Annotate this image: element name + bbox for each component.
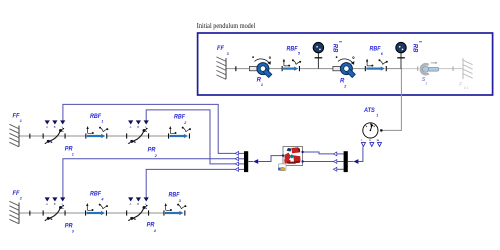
right demux output triangle 3 <box>333 167 336 171</box>
wire W2 demux out3 to PR2 input <box>146 110 235 164</box>
svg-text:FF: FF <box>217 46 224 52</box>
left demux output triangle 4 <box>235 168 238 172</box>
svg-text:RBF: RBF <box>287 47 298 53</box>
bottom row connection line PR4 to RBF3 <box>149 212 164 214</box>
svg-text:3: 3 <box>227 52 230 56</box>
machine red mechanism icon <box>284 147 300 164</box>
svg-text:FF: FF <box>13 191 20 197</box>
body shape RBF3 <box>163 203 186 216</box>
left demux stub lines <box>239 153 254 169</box>
middle row connection line PR1 to RBF1 <box>65 135 86 137</box>
fixed frame FF3 <box>216 57 226 80</box>
top row connection line R2 to RBF6 <box>353 68 365 70</box>
svg-text:1: 1 <box>101 120 103 124</box>
svg-text:1: 1 <box>425 81 427 85</box>
joint PR2 <box>126 120 149 144</box>
machine badge <box>278 164 286 171</box>
body shape RBF2 <box>168 126 191 139</box>
svg-text:PR: PR <box>147 223 155 229</box>
svg-text:RBF: RBF <box>90 114 101 120</box>
machine block frame <box>283 147 303 166</box>
wire W3 demux out2 to PR3 input <box>63 159 236 198</box>
svg-text:RBF: RBF <box>370 47 381 53</box>
svg-text:3: 3 <box>179 199 182 203</box>
machine connector top-right <box>301 151 303 153</box>
gray fixed frame F4 <box>463 58 473 79</box>
wire right demux out-mid to machine <box>303 161 334 163</box>
left demux output triangle 3 <box>235 162 238 166</box>
svg-text:RB: RB <box>332 44 338 53</box>
tick connector FF2 <box>29 211 30 216</box>
svg-text:1: 1 <box>20 119 22 123</box>
svg-text:1: 1 <box>261 83 263 87</box>
right demux bar <box>344 151 348 172</box>
svg-text:1: 1 <box>72 153 74 157</box>
svg-text:2: 2 <box>154 154 158 158</box>
top row connection line RBF5 to R2 <box>300 68 333 70</box>
machine connector left <box>282 154 284 156</box>
tick connector FF1 <box>29 134 30 139</box>
fixed frame FF2 <box>9 201 19 224</box>
joint PR3 <box>43 197 66 221</box>
svg-text:5: 5 <box>298 52 301 56</box>
revolute joint R1 <box>249 56 271 77</box>
tick connector FF3 <box>235 66 236 71</box>
body shape RBF4 <box>85 203 108 216</box>
svg-text:RBF: RBF <box>174 115 185 121</box>
joint PR4 <box>126 197 149 221</box>
right demux output triangle 2 <box>333 160 336 164</box>
svg-text:PR: PR <box>148 148 156 154</box>
ATS sensor gauge <box>363 123 378 138</box>
disabled connection line node to S1 <box>402 68 419 70</box>
svg-text:ATS: ATS <box>363 108 375 114</box>
svg-text:1: 1 <box>376 113 378 117</box>
svg-text:4: 4 <box>153 229 156 233</box>
ATS output triangle 3 <box>378 143 382 147</box>
wire machine output to left demux input <box>258 156 283 162</box>
wire W1 demux out1 to PR1 input <box>63 104 236 153</box>
disabled connection line S1 to gray wall <box>439 68 463 70</box>
bottom row connection line RBF4 to PR4 <box>106 212 126 214</box>
frame box of initial pendulum model <box>198 33 493 95</box>
top row connection line FF3 to R1 <box>226 68 249 70</box>
svg-text:FF: FF <box>13 114 20 120</box>
body shape RBF1 <box>85 126 108 139</box>
svg-text:2: 2 <box>19 197 23 201</box>
svg-text:F: F <box>459 81 463 86</box>
svg-text:6: 6 <box>381 52 384 56</box>
body RB (second) <box>396 42 406 68</box>
ATS right connector <box>380 129 382 131</box>
sensor line from node down to ATS <box>382 69 402 131</box>
wire right demux out-top to machine <box>303 152 334 154</box>
left demux input arrow <box>253 159 258 164</box>
right demux output triangle 1 <box>333 152 336 156</box>
svg-text:RBF: RBF <box>90 192 101 198</box>
svg-text:RB: RB <box>412 44 418 53</box>
svg-text:2: 2 <box>183 121 187 125</box>
top row connection line RBF6 to node <box>387 68 403 70</box>
svg-text:w: w <box>376 138 380 142</box>
left demux output triangle 2 <box>235 157 238 161</box>
bottom row connection line PR3 to RBF4 <box>65 212 86 214</box>
svg-text:4 1: 4 1 <box>464 86 469 90</box>
machine connector bottom-right <box>301 160 303 162</box>
svg-text:2: 2 <box>343 84 347 88</box>
ATS output triangle 2 <box>370 143 374 147</box>
wire W4 demux out4 to PR4 input <box>146 169 235 198</box>
ATS output triangle 1 <box>361 143 365 147</box>
body shape RBF6 <box>365 59 388 72</box>
disabled tick connector near gray wall <box>452 66 455 71</box>
svg-text:r: r <box>361 138 363 142</box>
middle row connection line FF1 to PR1 <box>19 135 43 137</box>
left demux output triangle 1 <box>235 152 238 156</box>
svg-text:Initial pendulum model: Initial pendulum model <box>197 23 256 30</box>
svg-text:4: 4 <box>100 198 103 202</box>
svg-text:3: 3 <box>72 230 75 234</box>
svg-text:v: v <box>369 138 371 142</box>
middle row connection line PR2 to RBF2 <box>149 135 169 137</box>
bottom row connection line FF2 to PR3 <box>19 212 43 214</box>
body RB (first) <box>313 42 323 68</box>
fixed frame FF1 <box>9 124 19 147</box>
joint PR1 <box>43 120 66 144</box>
right demux input arrow <box>353 159 358 164</box>
right demux stub lines <box>337 154 354 169</box>
top row connection line R1 to RBF5 <box>269 68 282 70</box>
revolute joint R2 <box>333 56 355 77</box>
svg-text:RBF: RBF <box>169 193 180 199</box>
middle row connection line RBF1 to PR2 <box>107 135 127 137</box>
left demux bar <box>244 151 248 172</box>
wire ATS output to right demux input <box>358 147 363 162</box>
disabled spring S1 <box>417 62 439 74</box>
body shape RBF5 <box>282 59 302 72</box>
